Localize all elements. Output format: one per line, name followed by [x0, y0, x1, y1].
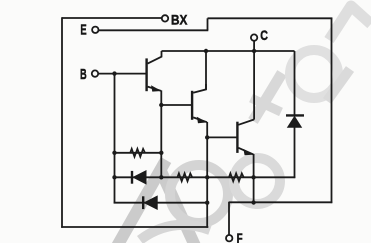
wire collector bus y51 [162, 50, 295, 52]
diode D2 [143, 196, 157, 209]
wire bottom edge [61, 226, 208, 228]
wire Q3 emitter drop [253, 154, 255, 204]
junction dot C bus [252, 49, 256, 53]
wire row A (speedup/resistor row) [115, 176, 296, 178]
transistor Q2 [192, 84, 207, 123]
transistor Q1 [147, 51, 162, 92]
terminal F [226, 230, 243, 243]
svg-text:BX: BX [171, 11, 188, 27]
junction dot row A x161 [159, 175, 163, 179]
svg-text:C: C [260, 27, 268, 43]
wire Q2 collector riser [205, 51, 207, 90]
wire Q2e to Q3 base [207, 136, 237, 138]
terminal BX [162, 11, 188, 27]
terminal B [80, 66, 98, 83]
diode D1 [132, 171, 146, 184]
resistor R1 [130, 149, 145, 157]
resistor R3 [229, 173, 244, 181]
junction dot Q2 collector bus [204, 49, 208, 53]
transistor Q3 [237, 120, 254, 156]
wire left edge [61, 17, 63, 228]
junction dot B lead [112, 71, 116, 75]
junction dot row B Q3e [251, 200, 255, 204]
wire F riser [228, 202, 230, 235]
wire top edge right (E net) [208, 17, 333, 19]
junction dot row A left [112, 175, 116, 179]
wire Q1 emitter to Q2 base [161, 104, 192, 106]
junction dot row A Q3e [251, 175, 255, 179]
wire row A right riser to D3 [294, 126, 296, 178]
wire diode row left (B to D2) [114, 202, 209, 204]
wire E step up [207, 18, 209, 30]
svg-text:E: E [80, 21, 86, 38]
wire E lead [99, 29, 209, 31]
wire top edge left (BX net) [62, 17, 162, 19]
junction dot Q1e corner [159, 103, 163, 107]
wire emitter row right (E/F net) [229, 201, 332, 203]
junction dot row A x207 [205, 175, 209, 179]
junction dot row B x207 [205, 201, 209, 205]
wire right edge [331, 18, 333, 204]
wire C terminal drop [253, 41, 255, 120]
terminal C [251, 27, 268, 43]
wire B lead to Q1 base [98, 73, 147, 75]
junction dot Q2e node [205, 135, 209, 139]
wire D3 riser top [294, 51, 296, 115]
diode D3 flyback [286, 115, 304, 127]
resistor R2 [177, 173, 192, 181]
junction dot R1 left [112, 151, 116, 155]
wire B drop vertical [114, 74, 116, 204]
svg-text:F: F [237, 230, 243, 243]
svg-text:B: B [80, 66, 87, 83]
terminal E [80, 21, 98, 38]
wire R1 row [115, 152, 162, 154]
junction dot R1 right [159, 151, 163, 155]
wire Q1e vertical x161 [160, 90, 162, 177]
wire long vertical x207 (BX to Q3 base net) [206, 122, 208, 228]
